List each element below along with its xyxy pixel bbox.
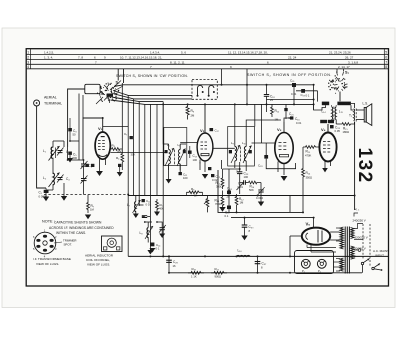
- svg-text:25: 25: [270, 98, 273, 102]
- extra junction dots: [67, 84, 356, 274]
- trimmer C7: [81, 176, 88, 184]
- oscillator coil L8: [140, 226, 154, 239]
- capacitor C18: [264, 85, 314, 105]
- wire IFT2 secondary to V3 grid: [252, 142, 275, 144]
- IF transformer 2 winding L10: [241, 146, 252, 164]
- ground below C1: [43, 197, 49, 202]
- wire bottom bus lower: [169, 272, 362, 274]
- capacitor C30: [242, 218, 254, 236]
- svg-text:C₁₆: C₁₆: [295, 117, 300, 121]
- ground below V1: [96, 171, 103, 176]
- svg-text:180Ω: 180Ω: [343, 130, 350, 134]
- wire S1 fan line 1: [114, 85, 294, 87]
- svg-text:220/230 V: 220/230 V: [355, 236, 368, 240]
- wire output transformer connections: [351, 103, 364, 124]
- svg-text:0·01: 0·01: [291, 92, 297, 96]
- capacitor C16: [284, 116, 300, 122]
- svg-text:C₂₁: C₂₁: [289, 112, 294, 116]
- mains transformer T3: [340, 227, 354, 274]
- svg-text:5K: 5K: [194, 194, 197, 198]
- svg-text:3, 1,6,8: 3, 1,6,8: [348, 60, 358, 64]
- wire osc links: [136, 196, 162, 243]
- svg-text:P₁: P₁: [302, 269, 305, 273]
- capacitor C25: [238, 180, 249, 185]
- svg-text:NOTE :: NOTE :: [42, 220, 55, 224]
- wire bottom bus upper: [128, 255, 388, 257]
- svg-text:C₃₃: C₃₃: [335, 125, 341, 129]
- wire S1 fan verticals: [128, 95, 163, 256]
- svg-text:100: 100: [183, 176, 188, 180]
- svg-text:CAPACITIVE SHUNTS SHOWN: CAPACITIVE SHUNTS SHOWN: [54, 221, 102, 225]
- aerial terminal: [34, 96, 63, 107]
- svg-text:10, 7, 11,12,13,14,16,15,18, 2: 10, 7, 11,12,13,14,16,15,18, 21,: [120, 56, 162, 60]
- resistor R9: [186, 104, 195, 119]
- bus row 3 contact numbers: [95, 60, 358, 64]
- schematic frame: [26, 49, 388, 286]
- transformer label RED: [322, 102, 329, 106]
- wire S1 fan line 2: [113, 91, 192, 96]
- wire S1 fan line 5 (long HT run): [111, 100, 314, 104]
- ground coil column: [61, 196, 67, 201]
- capacitor C8b: [118, 164, 121, 167]
- capacitor C24: [227, 187, 233, 195]
- resistor R7: [87, 195, 94, 214]
- ground onto bottom bus: [147, 248, 153, 255]
- trimmer C15: [159, 225, 166, 233]
- svg-text:P₂: P₂: [318, 269, 321, 273]
- loudspeaker: [363, 102, 372, 126]
- label S2a: [236, 170, 241, 174]
- svg-text:2: 2: [27, 56, 29, 60]
- svg-text:500: 500: [73, 156, 78, 160]
- IF transformer 1 winding L6: [174, 143, 185, 166]
- svg-text:5: 5: [385, 51, 387, 55]
- svg-text:700Ω: 700Ω: [215, 202, 222, 206]
- svg-text:L₁: L₁: [43, 149, 46, 153]
- svg-text:1·1K: 1·1K: [191, 275, 197, 279]
- resistor R1: [116, 83, 124, 170]
- svg-text:S₂: S₂: [345, 71, 350, 75]
- choke L16: [237, 249, 251, 257]
- resistor R11: [216, 175, 224, 189]
- svg-text:V₁: V₁: [98, 126, 103, 131]
- ground below R13: [219, 207, 225, 212]
- svg-text:L₁₅: L₁₅: [339, 110, 344, 114]
- svg-text:AERIAL: AERIAL: [44, 96, 57, 100]
- svg-text:350Ω: 350Ω: [306, 176, 313, 180]
- wire S1 to bus drops: [118, 69, 123, 83]
- resistor R10 (grid of V4): [303, 146, 319, 154]
- svg-text:8: 8: [385, 65, 387, 69]
- svg-text:C₁₇: C₁₇: [215, 129, 219, 133]
- capacitor C10: [188, 146, 198, 158]
- svg-text:132: 132: [354, 148, 375, 184]
- svg-text:COIL ON PANEL,: COIL ON PANEL,: [86, 258, 110, 262]
- svg-text:0·1: 0·1: [225, 214, 229, 218]
- svg-text:C₂₉: C₂₉: [173, 260, 179, 264]
- wire aerial lead down: [37, 106, 46, 188]
- wire RED box to V4 plate: [314, 104, 340, 132]
- wire lamp box to transformer: [334, 262, 342, 267]
- wire S1 fan line 4: [112, 97, 164, 102]
- svg-text:AERIAL INDUCTOR: AERIAL INDUCTOR: [85, 254, 114, 258]
- capacitor C12a in can: [165, 150, 186, 153]
- wire right vertical HT: [313, 85, 315, 105]
- svg-text:7, 8: 7, 8: [78, 56, 83, 60]
- svg-text:VIEW OF LUGS.: VIEW OF LUGS.: [36, 262, 59, 266]
- capacitor C27: [225, 206, 231, 215]
- transformer label MAROON: [337, 102, 351, 106]
- svg-text:LW: LW: [107, 93, 111, 97]
- oscillator coil L7: [127, 200, 141, 213]
- svg-text:R₁₄: R₁₄: [306, 171, 311, 175]
- svg-text:TERMINAL: TERMINAL: [44, 102, 62, 106]
- ground below V2: [202, 174, 208, 179]
- wire V5 to AF line: [290, 218, 314, 257]
- svg-text:11, 12, 13,14,15,16,17,18, 20,: 11, 12, 13,14,15,16,17,18, 20,: [228, 50, 268, 54]
- svg-text:470K: 470K: [305, 154, 311, 158]
- resistor R12: [271, 104, 280, 117]
- svg-text:25: 25: [227, 195, 230, 199]
- capacitor C22: [211, 174, 221, 179]
- wire V1 plate to IFT1: [110, 152, 166, 154]
- rotary switch S1 radial dashes: [96, 81, 123, 105]
- bus row 1 contact numbers: [44, 50, 351, 54]
- capacitor C37: [255, 255, 267, 273]
- tube V1: [95, 118, 110, 171]
- wire V1 grid cap to left: [83, 118, 103, 160]
- switch bus line 4: [26, 63, 388, 65]
- svg-text:BLUE: BLUE: [321, 120, 328, 124]
- gang link dashed line: [44, 194, 129, 196]
- svg-text:50K: 50K: [249, 188, 254, 192]
- svg-text:R₂₀: R₂₀: [215, 267, 220, 271]
- svg-text:300Ω: 300Ω: [216, 185, 223, 189]
- svg-text:0·01: 0·01: [238, 185, 244, 189]
- svg-text:I.F. TRANSFORMER BASE: I.F. TRANSFORMER BASE: [33, 257, 71, 261]
- resistor R12b: [235, 194, 244, 212]
- svg-text:2, 14, 17: 2, 14, 17: [338, 65, 350, 69]
- svg-text:26, 27: 26, 27: [345, 56, 354, 60]
- svg-text:R₇: R₇: [91, 204, 94, 208]
- svg-text:5, 6: 5, 6: [181, 50, 186, 54]
- svg-text:40K: 40K: [159, 207, 164, 211]
- svg-text:L₇: L₇: [127, 203, 130, 207]
- ground osc 2: [154, 212, 160, 217]
- ground left column cluster: [117, 167, 123, 177]
- svg-text:50: 50: [73, 133, 76, 137]
- svg-text:SWITCH S₁ SHOWN IN ‘CW’ POSITI: SWITCH S₁ SHOWN IN ‘CW’ POSITION.: [116, 74, 188, 78]
- svg-text:16: 16: [173, 264, 176, 268]
- tube V3: [275, 122, 293, 175]
- svg-text:1: 1: [27, 51, 29, 55]
- svg-text:V₂: V₂: [200, 128, 205, 133]
- svg-text:0·01: 0·01: [296, 121, 302, 125]
- coil L2: [43, 173, 60, 188]
- capacitor C13: [142, 216, 147, 218]
- capacitor C7b: [124, 132, 133, 139]
- svg-text:A.C. MAINS: A.C. MAINS: [373, 249, 389, 253]
- label trimmer spot: [63, 239, 77, 247]
- svg-text:7: 7: [385, 61, 387, 65]
- svg-text:21, 23,24, 25,26: 21, 23,24, 25,26: [329, 50, 351, 54]
- wire V1 grid cap to fan column: [103, 126, 129, 128]
- capacitor C9b: [86, 164, 95, 167]
- svg-text:R₁₃: R₁₃: [215, 199, 220, 203]
- wire coil column verticals: [46, 141, 68, 196]
- svg-text:1,4,2,5,: 1,4,2,5,: [44, 50, 54, 54]
- svg-text:0·01: 0·01: [146, 203, 152, 207]
- svg-text:L₁₆: L₁₆: [238, 249, 243, 253]
- resistor R2: [110, 144, 122, 151]
- svg-text:900Ω: 900Ω: [215, 275, 222, 279]
- bus left label column: [27, 49, 30, 69]
- ground below C26: [258, 202, 264, 207]
- switch bus line 3: [26, 59, 388, 61]
- IF transformer 1 winding L5: [164, 128, 187, 167]
- tube V4: [319, 124, 336, 172]
- IF transformer 2 winding L9: [228, 127, 255, 167]
- resistor R13: [215, 194, 224, 207]
- svg-text:C₂₈: C₂₈: [258, 164, 263, 168]
- capacitor C20a in can: [229, 150, 252, 153]
- volume potentiometer R?: [204, 196, 209, 213]
- component value labels: [39, 92, 350, 279]
- rotary switch S2 radial dashes: [334, 72, 348, 90]
- svg-text:R₁₆: R₁₆: [250, 185, 255, 189]
- svg-text:C₂₃: C₂₃: [244, 172, 250, 176]
- ground below C30: [241, 236, 247, 241]
- wire S2 down to transformer: [339, 92, 341, 102]
- svg-text:100: 100: [193, 158, 198, 162]
- wire volume line left of R10: [302, 147, 304, 166]
- label switch S2 caption: [247, 73, 332, 77]
- resistor R5: [156, 199, 164, 212]
- svg-text:C₁₁: C₁₁: [183, 173, 187, 177]
- wire misc verticals: [222, 69, 314, 213]
- trimmer C2: [57, 148, 70, 156]
- bus row 2 contact numbers: [44, 56, 354, 60]
- bus row 4 contact numbers: [150, 65, 350, 69]
- ground V2 cathode: [199, 162, 201, 164]
- wire trimmer column: [68, 160, 84, 195]
- capacitor C20: [296, 89, 318, 102]
- svg-text:C₂₄: C₂₄: [227, 187, 233, 191]
- switch bus line 2: [26, 53, 388, 55]
- capacitor C33: [330, 125, 341, 129]
- dial lamp P2: [317, 259, 326, 273]
- rotary switch S1 (speckled wafer): [97, 81, 120, 103]
- capacitor C23: [237, 172, 249, 176]
- mains voltage tap labels: [353, 207, 368, 251]
- svg-text:C₁₀: C₁₀: [193, 154, 198, 158]
- wire IFT1 secondary down: [169, 164, 181, 179]
- wire IFT2 connections: [235, 104, 281, 171]
- wire aerial coupling capacitor C8: [79, 94, 83, 142]
- capacitor C14: [150, 243, 161, 248]
- coil L1: [43, 146, 60, 161]
- svg-text:WITHIN THE CANS.: WITHIN THE CANS.: [56, 231, 86, 235]
- wire V3 cathode cluster: [223, 162, 244, 212]
- wire can to coil column: [68, 89, 85, 147]
- wire V2 plate to IFT2: [213, 147, 235, 149]
- wire S2 drops to bus: [337, 69, 344, 73]
- dial lamp P1: [301, 259, 310, 273]
- ground below C14: [149, 248, 155, 253]
- wire grid return column: [70, 141, 79, 160]
- transformer label BLK: [328, 120, 334, 124]
- svg-text:ACROSS I.F. WINDINGS ARE CO: ACROSS I.F. WINDINGS ARE CONTAINED: [49, 226, 114, 230]
- svg-text:1,4,3,4,: 1,4,3,4,: [150, 50, 160, 54]
- svg-text:C₁₈: C₁₈: [270, 95, 275, 99]
- ground below V3: [281, 176, 288, 181]
- resistor R14: [302, 166, 311, 180]
- wire top mid horizontal: [222, 69, 314, 85]
- svg-text:C₃₀: C₃₀: [249, 225, 255, 229]
- capacitor C17: [210, 128, 219, 133]
- svg-text:C₇: C₇: [124, 132, 127, 136]
- svg-text:0·004: 0·004: [256, 196, 263, 200]
- svg-text:0·0005: 0·0005: [39, 195, 48, 199]
- svg-text:BLK: BLK: [328, 120, 333, 124]
- wire R14 down to AF line: [302, 180, 304, 212]
- capacitor C19: [290, 79, 296, 105]
- ground below R7: [85, 215, 91, 220]
- capacitor C12: [142, 199, 152, 203]
- svg-text:50: 50: [289, 116, 292, 120]
- bus right label column: [384, 49, 387, 69]
- svg-text:V₅: V₅: [306, 222, 311, 227]
- svg-text:C₁: C₁: [39, 191, 42, 195]
- capacitor C28 box: [258, 143, 296, 169]
- mains switch contacts: [361, 224, 382, 273]
- tube V5 rectifier: [302, 222, 340, 253]
- AF transformer T1 windings L14 L15: [322, 105, 344, 124]
- switch bus line 5: [26, 68, 388, 70]
- wire transformer top to line: [354, 122, 356, 210]
- svg-text:C₁₄: C₁₄: [156, 243, 161, 247]
- rotary switch S2 (speckled wafer): [328, 71, 350, 94]
- svg-text:0·02: 0·02: [212, 178, 218, 182]
- output transformer winding: [349, 109, 356, 122]
- svg-text:C₃₇: C₃₇: [262, 262, 267, 266]
- svg-text:SPOT.: SPOT.: [64, 243, 73, 247]
- label switch S1 caption: [116, 74, 188, 78]
- IF transformer base diagram: [33, 229, 62, 259]
- capacitor C1: [39, 190, 49, 197]
- wire transformer taps: [336, 213, 363, 271]
- svg-text:0·05: 0·05: [335, 129, 341, 133]
- svg-text:0·1: 0·1: [156, 247, 160, 251]
- svg-text:0·1: 0·1: [306, 94, 310, 98]
- caption aerial inductor: [85, 254, 114, 267]
- resistor R19: [188, 267, 204, 274]
- svg-text:V₃: V₃: [277, 127, 282, 132]
- capacitor C5: [67, 152, 77, 163]
- resistor R15: [340, 123, 353, 131]
- ground osc 1: [133, 214, 139, 219]
- svg-text:8, 11, 2, 11: 8, 11, 2, 11: [170, 60, 185, 64]
- capacitor C29: [166, 255, 178, 273]
- svg-text:22, 24: 22, 24: [288, 56, 297, 60]
- svg-text:SWITCH S₂ SHOWN IN OFF POSITIO: SWITCH S₂ SHOWN IN OFF POSITION.: [247, 73, 332, 77]
- resistor R8: [187, 187, 203, 196]
- svg-text:1, 3, 4,: 1, 3, 4,: [44, 56, 53, 60]
- svg-text:V₁ ₁: V₁ ₁: [355, 207, 360, 211]
- gram pickup socket box: [192, 80, 217, 100]
- svg-text:240/250 V: 240/250 V: [353, 219, 366, 223]
- label 132: [354, 148, 375, 184]
- ground below IFT1: [166, 179, 172, 184]
- trimmer C6: [81, 161, 93, 169]
- capacitor C21: [284, 104, 293, 119]
- svg-text:MAROON: MAROON: [338, 102, 351, 106]
- svg-text:100: 100: [244, 175, 249, 179]
- resistor R16 (tone): [249, 181, 262, 188]
- caption IF transformer base: [33, 257, 71, 266]
- svg-text:V₄: V₄: [321, 127, 326, 132]
- svg-text:R₁₅: R₁₅: [343, 127, 348, 131]
- svg-text:R₁₂: R₁₂: [239, 197, 244, 201]
- svg-text:6: 6: [385, 56, 387, 60]
- coil can box left of S1: [85, 84, 100, 93]
- svg-text:VIEW OF LUGS.: VIEW OF LUGS.: [87, 263, 110, 267]
- svg-text:R₁₀: R₁₀: [306, 150, 311, 154]
- note text: [42, 220, 114, 236]
- label AC mains input: [373, 249, 389, 258]
- trimmer C26: [258, 183, 265, 202]
- svg-text:INPUT.: INPUT.: [375, 254, 385, 258]
- dial lamps assembly box: [295, 251, 334, 274]
- wire IFT1 connections: [163, 102, 186, 170]
- ground below C15: [159, 234, 165, 239]
- svg-text:30K: 30K: [131, 153, 136, 157]
- wire long screen line: [128, 195, 354, 197]
- trimmer C4: [57, 175, 70, 183]
- svg-text:3: 3: [27, 61, 29, 65]
- svg-text:L.S.: L.S.: [363, 102, 369, 106]
- wire AF line horizontals: [218, 170, 314, 218]
- capacitor C3: [68, 118, 77, 141]
- svg-text:4: 4: [27, 65, 29, 69]
- svg-text:R₁₂: R₁₂: [275, 109, 280, 113]
- wire IFT1 secondary to V2 grid: [180, 141, 197, 143]
- tube V2: [197, 104, 213, 172]
- aerial inductor panel diagram: [102, 236, 123, 252]
- capacitor C68 cathode V2: [208, 167, 211, 170]
- capacitor C11: [179, 172, 188, 177]
- wire S1 fan line 3: [113, 94, 193, 99]
- svg-text:RED: RED: [323, 102, 329, 106]
- transformer label BLUE: [320, 120, 327, 124]
- resistor R20: [211, 267, 227, 274]
